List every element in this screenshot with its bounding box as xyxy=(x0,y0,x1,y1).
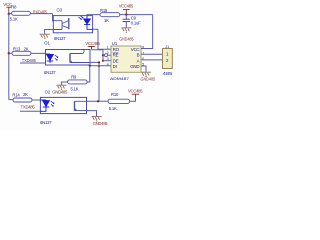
svg-text:B: B xyxy=(137,53,140,58)
svg-text:GND485: GND485 xyxy=(141,77,156,82)
wire VCC pin feed xyxy=(141,15,153,49)
svg-text:DE: DE xyxy=(113,58,119,63)
svg-text:DI: DI xyxy=(113,64,117,69)
wire DI row xyxy=(90,65,111,67)
svg-text:RO: RO xyxy=(113,47,120,52)
svg-text:5.1K: 5.1K xyxy=(109,106,117,111)
svg-text:GND485: GND485 xyxy=(93,121,109,126)
svg-text:R10: R10 xyxy=(111,92,119,97)
wire A to connector xyxy=(141,59,162,61)
svg-text:TXD485: TXD485 xyxy=(22,58,37,63)
wire down to R9 xyxy=(87,66,90,82)
node VCC junction xyxy=(8,13,10,15)
svg-text:GND485: GND485 xyxy=(52,89,68,94)
svg-text:5.1K: 5.1K xyxy=(71,86,79,91)
transistor Q-O3 (output side, inside left) xyxy=(53,18,69,30)
ground GND485 (under C9) xyxy=(121,28,131,32)
svg-text:2: 2 xyxy=(107,51,109,55)
power symbol VCC485 (middle) xyxy=(85,41,100,50)
pin RE bubble xyxy=(103,54,104,56)
svg-text:6N137: 6N137 xyxy=(40,120,52,125)
svg-text:TXD485: TXD485 xyxy=(21,104,36,109)
resistor R15 xyxy=(100,8,120,23)
power symbol VCC (top-left) xyxy=(3,2,13,14)
svg-text:O1: O1 xyxy=(44,41,50,46)
svg-text:U1: U1 xyxy=(112,41,118,46)
wire O2 emitter to ground xyxy=(87,111,97,117)
wire top opto cathode to RO xyxy=(93,29,111,49)
wire VCC rail left xyxy=(8,14,10,100)
node R13 tap xyxy=(8,52,10,54)
pin numbers xyxy=(107,45,144,66)
svg-text:6N137: 6N137 xyxy=(44,70,56,75)
node DE xyxy=(102,60,104,62)
svg-text:VCC485: VCC485 xyxy=(128,89,143,94)
svg-text:5.1K: 5.1K xyxy=(10,17,18,22)
node DI wire xyxy=(98,65,100,67)
svg-text:R8: R8 xyxy=(11,5,17,10)
svg-text:GND485: GND485 xyxy=(119,36,134,41)
power symbol VCC485 (top) xyxy=(119,4,134,15)
wire O2 collector to R10 node xyxy=(87,100,109,102)
node O1 collector bend xyxy=(98,61,100,63)
wire O1 collector to pull node xyxy=(90,62,99,101)
svg-text:VCC: VCC xyxy=(131,47,140,52)
wire R9 to ground xyxy=(61,82,67,85)
svg-text:R13: R13 xyxy=(13,46,21,51)
svg-text:O3: O3 xyxy=(57,7,63,12)
svg-text:485: 485 xyxy=(163,71,174,76)
svg-text:RE: RE xyxy=(113,53,119,58)
resistor R9 xyxy=(68,75,88,92)
svg-text:R14: R14 xyxy=(12,92,20,97)
node R10 xyxy=(97,100,99,102)
svg-text:1K: 1K xyxy=(104,18,109,23)
wire TXD485 (O2 cathode out) xyxy=(20,110,40,112)
optocoupler O2 6N137 (bottom) xyxy=(40,97,87,125)
svg-text:R9: R9 xyxy=(71,75,77,80)
wire R13 to opto O1 anode xyxy=(9,52,46,54)
diode LED-O3 (input side, inside right) xyxy=(78,16,92,30)
wire B to connector xyxy=(141,53,162,55)
svg-text:A: A xyxy=(137,58,140,63)
svg-text:4: 4 xyxy=(107,62,109,66)
resistor R14 xyxy=(12,92,32,102)
svg-text:2K: 2K xyxy=(24,46,29,51)
wire TXD485 (O1 cathode out) xyxy=(20,62,50,64)
optocoupler O1 6N137 (middle) xyxy=(44,41,90,76)
svg-text:2K: 2K xyxy=(23,92,28,97)
wire R10 to VCC485 xyxy=(130,95,136,102)
wire RE/DE tie from VCC485 stub xyxy=(92,50,104,61)
transistor Q-O2 (output side, inside right) xyxy=(75,101,87,110)
ground (top opto GND, MCU side) xyxy=(45,30,54,34)
ground (IC GND) xyxy=(141,72,151,76)
svg-text:ADM487: ADM487 xyxy=(110,76,130,81)
svg-text:O2: O2 xyxy=(45,89,51,94)
optocoupler O3 6N137 (top) xyxy=(53,7,92,41)
node RE xyxy=(102,54,104,56)
wire GND pin down xyxy=(141,66,146,72)
wire rail corner into R14 xyxy=(9,99,41,101)
ground (R9, GND485) xyxy=(56,85,66,89)
node R9 top xyxy=(89,65,91,67)
power symbol VCC485 (bottom right) xyxy=(128,89,143,95)
wire R8 to opto O3 xyxy=(9,14,54,21)
svg-text:VCC485: VCC485 xyxy=(119,4,134,9)
ground (O2 emitter GND485) xyxy=(92,117,102,121)
wire DE stub xyxy=(103,60,111,62)
svg-text:6N137: 6N137 xyxy=(54,36,66,41)
node VCC485 junction xyxy=(125,13,127,15)
resistor R13 xyxy=(12,46,31,55)
resistor R10 xyxy=(108,92,130,111)
diode LED-O1 (input side, inside left) xyxy=(46,54,59,63)
connector J1 485 xyxy=(163,44,174,76)
diode LED-O2 (input side, inside left) xyxy=(40,100,54,111)
svg-text:0.1uF: 0.1uF xyxy=(131,20,141,25)
IC U1 ADM487 xyxy=(107,41,144,81)
svg-text:GND: GND xyxy=(130,64,139,69)
resistor R8 xyxy=(10,5,31,22)
svg-text:3: 3 xyxy=(107,57,109,61)
wire opto anode to R15 to VCC node xyxy=(87,15,153,16)
capacitor C9 xyxy=(123,15,142,28)
transistor Q-O1 (output side, inside right) xyxy=(70,50,90,63)
svg-text:RXD485: RXD485 xyxy=(33,10,48,15)
